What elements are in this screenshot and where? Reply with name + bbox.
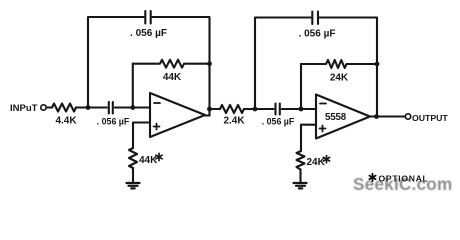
svg-text:OUTPUT: OUTPUT — [412, 113, 448, 123]
wire — [244, 108, 274, 110]
op-amp U1 — [150, 93, 205, 137]
wire — [301, 125, 316, 151]
wire — [88, 17, 144, 108]
wire — [255, 18, 311, 110]
svg-text:2.4K: 2.4K — [223, 116, 245, 127]
op-amp U2 5558 — [316, 95, 370, 139]
wire — [210, 108, 221, 110]
ground — [127, 182, 140, 184]
capacitor C3 .056uF — [311, 12, 313, 25]
svg-text:44K: 44K — [139, 155, 158, 166]
wire — [76, 106, 107, 108]
resistor R2 44K — [133, 60, 210, 68]
resistor R4 2.4K — [220, 105, 244, 113]
capacitor C1 .056uF — [144, 11, 146, 24]
capacitor C2 .056uF — [108, 102, 110, 114]
svg-text:5558: 5558 — [325, 112, 347, 123]
wire — [282, 108, 316, 110]
capacitor C4 .056uF — [274, 104, 276, 115]
svg-text:. 056 µF: . 056 µF — [97, 117, 130, 127]
resistor 4.4K — [52, 104, 76, 112]
node A — [86, 105, 91, 110]
wire — [205, 114, 210, 116]
label OPTIONAL note asterisk — [369, 174, 375, 181]
svg-text:. 056 µF: . 056 µF — [262, 117, 295, 127]
input terminal — [41, 105, 46, 110]
svg-text:. 056 µF: . 056 µF — [130, 28, 167, 39]
svg-text:24K: 24K — [307, 157, 326, 168]
wire — [132, 168, 134, 182]
ground — [294, 182, 307, 184]
resistor R6 24K* — [297, 151, 305, 170]
output terminal — [405, 114, 410, 119]
svg-text:INPuT: INPuT — [10, 103, 38, 114]
wire — [132, 64, 134, 108]
wire — [299, 170, 301, 183]
node F — [299, 107, 304, 112]
node H — [374, 114, 379, 119]
svg-text:4.4K: 4.4K — [55, 115, 77, 126]
wire — [370, 115, 405, 117]
asterisk star R3 — [156, 153, 162, 160]
wire — [300, 64, 302, 109]
asterisk star R6 — [323, 156, 329, 163]
node B — [130, 105, 135, 110]
wire — [47, 106, 53, 108]
resistor R5 24K — [301, 60, 377, 68]
node C — [207, 61, 212, 66]
wire — [319, 18, 377, 117]
svg-text:OPTIONAL: OPTIONAL — [379, 174, 429, 184]
node E — [253, 107, 258, 112]
svg-text:44K: 44K — [163, 72, 182, 83]
wire — [133, 123, 150, 149]
svg-text:. 056 µF: . 056 µF — [299, 29, 336, 40]
svg-text:24K: 24K — [330, 73, 349, 84]
node D — [207, 107, 212, 112]
node G — [375, 62, 380, 67]
resistor R3 44K* — [129, 148, 137, 168]
wire — [115, 106, 150, 108]
wire — [152, 17, 210, 116]
